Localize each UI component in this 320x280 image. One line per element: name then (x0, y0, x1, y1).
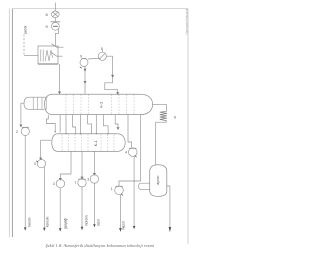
svg-text:4: 4 (125, 151, 127, 155)
junction dots on K-1 top (65, 133, 108, 134)
svg-text:K-1: K-1 (94, 141, 98, 147)
svg-text:Ham petrol teknoloji: Ham petrol teknoloji (184, 9, 188, 35)
wire: K-2 bottom left Z draw-off to K-1 (47, 115, 56, 132)
wire: P2 product line (43, 167, 45, 229)
separator left nozzle (139, 183, 150, 189)
wire: P3 product line (59, 188, 61, 229)
svg-text:7: 7 (74, 181, 76, 185)
wire: connector c jog (73, 115, 76, 134)
furnace stub outlet 1 (52, 44, 64, 48)
column K-2 main shell (45, 94, 52, 114)
wire: K-1 overhead to pump P2 (41, 140, 52, 158)
svg-text:K-2: K-2 (98, 102, 103, 108)
cooler X1 (circle with slash) (98, 52, 106, 60)
wire: neck overhead to pump P1 (21, 103, 24, 125)
wire: K-2 bottoms to pump P4 (128, 115, 132, 148)
furnace coil (40, 50, 42, 62)
furnace F1 box (38, 46, 58, 64)
wire: P1 product line (24, 136, 26, 228)
pump P2 (37, 159, 45, 167)
svg-text:3: 3 (53, 182, 55, 186)
wire: mixer to heater (54, 18, 56, 23)
wire: dashed feed riser (23, 35, 25, 56)
svg-text:motorin: motorin (84, 215, 88, 226)
separator S1 (150, 165, 167, 172)
frame left outer line (8, 9, 10, 238)
wire: condenser to separator (156, 121, 167, 165)
svg-text:Şekil 1.8. Atmosferik distilla: Şekil 1.8. Atmosferik distillasyon kolon… (46, 243, 155, 248)
svg-text:kerosin: kerosin (45, 216, 49, 227)
wire: K-1 draw to pump P3 (60, 152, 71, 179)
heater E1 (circle with top bar) (51, 21, 61, 23)
svg-text:3: 3 (34, 162, 36, 166)
wire: P4b product line (81, 187, 83, 227)
pump P6 (115, 186, 124, 195)
wire: separator outlet product line (167, 186, 170, 227)
frame left inner line (11, 9, 13, 238)
wire: connector a (59, 115, 61, 133)
svg-text:3: 3 (87, 177, 89, 181)
circuit/process flow diagram: atmospheric distillation column (rotated scan) (0, 0, 197, 280)
wire: heater outlet to furnace (55, 29, 58, 46)
svg-text:ayırıcı: ayırıcı (156, 176, 160, 185)
wire: K-2 side stream down to pump P6 (119, 115, 141, 186)
pump P4 (column bottoms) (129, 148, 138, 157)
K-2 internal trays (dashed) (66, 95, 134, 115)
pump P5 (90, 175, 98, 183)
wire: connector b (65, 115, 67, 134)
wire: K-2 overhead vapour line to condenser (153, 104, 167, 111)
wire: P5 product line (93, 183, 95, 224)
wire: P4 product line (133, 157, 135, 227)
svg-text:petrol: petrol (23, 25, 27, 34)
wire: cooler outlet zigzag into column K-2 (105, 56, 118, 93)
wire: K-1 draw to pump P5 (93, 152, 95, 174)
pump P9 (reflux pump near column top) (80, 59, 88, 67)
K-1 internal trays (dashed) (62, 134, 114, 151)
svg-text:9: 9 (80, 55, 82, 59)
wire: connector f (95, 115, 97, 134)
svg-text:mazot: mazot (122, 221, 126, 230)
pump P4b (78, 179, 86, 187)
neck trays (32, 97, 34, 109)
svg-text:dizel: dizel (97, 219, 101, 226)
wire: connector g jog (103, 115, 108, 134)
mixer M1 (ellipse with cross) (51, 11, 59, 18)
svg-text:1: 1 (111, 187, 113, 191)
furnace stub outlet 2 (52, 53, 63, 57)
frame right line (187, 9, 189, 244)
wire: furnace inlet from feed header (24, 54, 38, 56)
wire: connector d (80, 115, 82, 134)
column K-2 neck section (stripper neck with trays) (24, 97, 29, 109)
svg-text:gazyağı: gazyağı (63, 218, 67, 229)
wire: feed line from top edge (54, 3, 56, 11)
condenser C1 (coil) (160, 111, 167, 120)
pump P3 (56, 179, 64, 187)
wire: connector h jog with arrow into K-1 dome (115, 115, 118, 128)
wire: connector e jog (88, 115, 92, 134)
svg-text:benzin: benzin (28, 217, 32, 227)
svg-text:6: 6 (174, 115, 176, 119)
svg-text:2: 2 (16, 130, 18, 134)
svg-text:5: 5 (101, 47, 103, 51)
wire: pump to cooler (88, 57, 100, 60)
wire: transfer line furnace to column K-2 (59, 64, 61, 92)
wire: P6 product line (119, 195, 121, 229)
wire: reflux pump discharge into column K-2 (84, 67, 86, 95)
wire: K-1 draw to pump P4b (81, 152, 83, 178)
pump P1 (22, 126, 29, 128)
column K-1 shell (52, 134, 58, 152)
frame top line (12, 8, 188, 10)
